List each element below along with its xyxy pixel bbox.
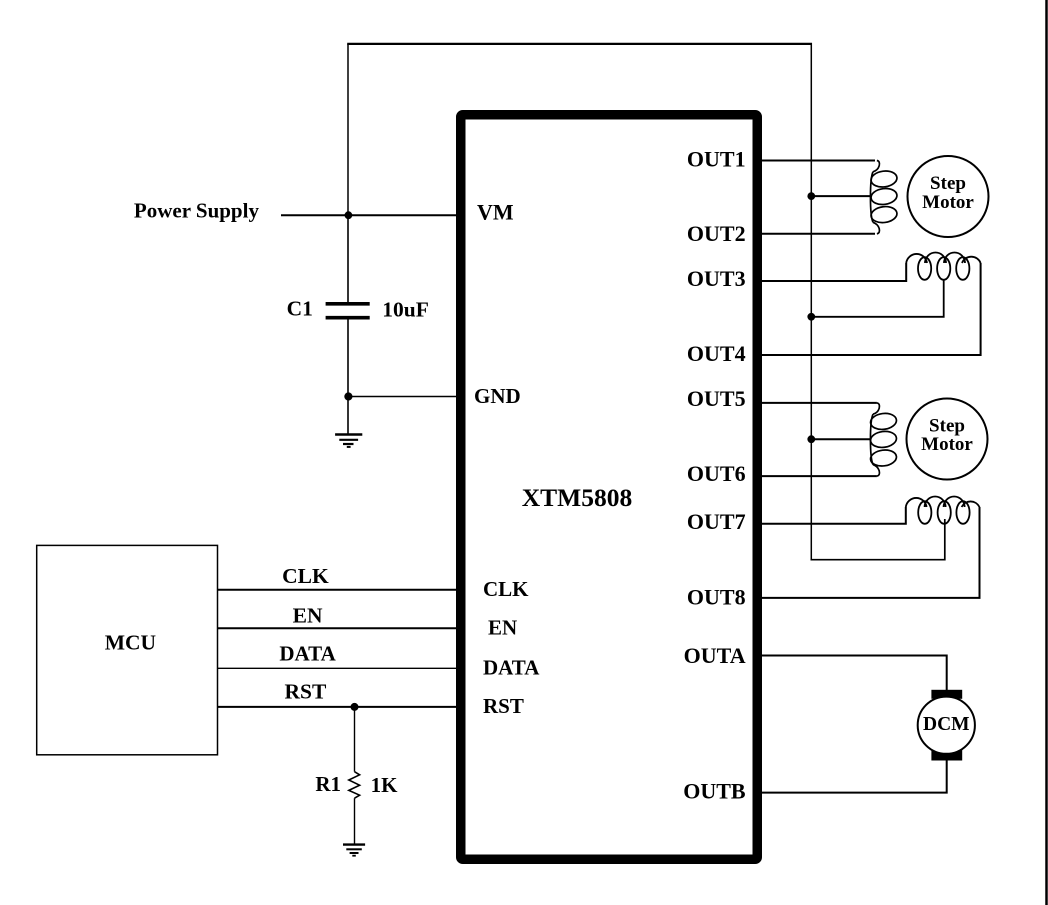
svg-text:CLK: CLK	[282, 564, 329, 588]
svg-text:EN: EN	[488, 615, 517, 639]
svg-text:EN: EN	[293, 603, 323, 627]
svg-text:OUT4: OUT4	[687, 341, 746, 366]
svg-text:DCM: DCM	[923, 714, 970, 735]
svg-text:OUT8: OUT8	[687, 585, 746, 610]
svg-text:OUTB: OUTB	[683, 779, 746, 804]
svg-text:OUT6: OUT6	[687, 461, 746, 486]
svg-text:OUT3: OUT3	[687, 266, 746, 291]
svg-text:VM: VM	[477, 200, 514, 225]
svg-text:Motor: Motor	[922, 192, 974, 213]
svg-text:Power Supply: Power Supply	[134, 198, 260, 222]
svg-text:RST: RST	[483, 694, 524, 718]
svg-text:C1: C1	[287, 297, 313, 321]
svg-text:Motor: Motor	[921, 434, 973, 455]
svg-text:MCU: MCU	[105, 630, 156, 654]
svg-text:GND: GND	[474, 384, 521, 408]
svg-text:10uF: 10uF	[382, 298, 429, 322]
svg-text:XTM5808: XTM5808	[522, 483, 633, 512]
svg-text:DATA: DATA	[279, 642, 336, 666]
svg-text:OUT5: OUT5	[687, 386, 746, 411]
svg-text:Step: Step	[930, 173, 966, 194]
svg-text:DATA: DATA	[483, 655, 540, 679]
svg-text:CLK: CLK	[483, 577, 529, 601]
svg-text:1K: 1K	[371, 773, 399, 797]
svg-text:OUT7: OUT7	[687, 509, 746, 534]
svg-text:OUT1: OUT1	[687, 147, 746, 172]
svg-text:RST: RST	[284, 680, 326, 704]
svg-text:OUTA: OUTA	[684, 643, 746, 668]
svg-text:R1: R1	[315, 772, 341, 796]
svg-text:OUT2: OUT2	[687, 221, 746, 246]
